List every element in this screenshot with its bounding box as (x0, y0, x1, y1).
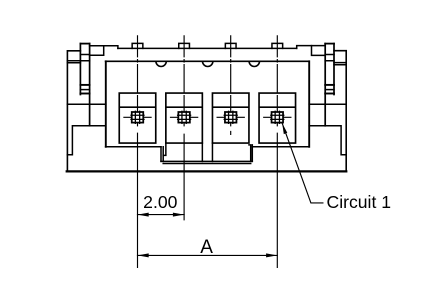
pin 2 tab (179, 43, 190, 48)
pin 4 extension line (276, 133, 278, 267)
top flange (118, 47, 297, 49)
cavity box 1 (119, 93, 156, 143)
seating plane bottom line (67, 170, 347, 172)
connector outer left wall (67, 51, 80, 172)
center rib right wall (211, 143, 213, 161)
pin 1 horizontal centerline (124, 116, 151, 118)
pin 3 horizontal centerline (217, 116, 244, 118)
pin 1 contact square (131, 111, 144, 123)
connector outer right wall (334, 51, 346, 172)
right wing bottom edge (309, 103, 346, 105)
dimension 2.00 line (138, 213, 185, 217)
pin 3 tab (225, 43, 236, 48)
notch arc 3 (249, 61, 259, 66)
flange right step (297, 46, 326, 49)
left side ledge lines (67, 61, 80, 63)
pin 1 tab (132, 43, 143, 48)
left latch (80, 44, 89, 95)
left latch inner edge wire (89, 44, 91, 126)
dimension A line (138, 253, 278, 257)
notch arc 2 (203, 61, 213, 66)
right latch inner edge wire (324, 44, 326, 126)
housing body top (106, 60, 310, 62)
channel left wall (161, 147, 163, 162)
svg-text:Circuit 1: Circuit 1 (327, 192, 392, 212)
pin 4 contact square (271, 111, 284, 123)
pin 2 contact square (178, 111, 191, 123)
housing body right edge (308, 61, 310, 147)
pin 1 extension line (137, 133, 139, 267)
pin 1 vertical centerline (137, 36, 139, 126)
right side ledge lines (334, 63, 346, 65)
channel right wall (249, 145, 252, 162)
pin 2 extension line (183, 134, 185, 220)
housing body left edge (105, 61, 107, 147)
pin 4 tab (272, 43, 283, 48)
pin 2 vertical centerline (183, 36, 185, 126)
svg-text:A: A (200, 237, 213, 258)
pin 4 vertical centerline (276, 36, 278, 126)
left wing bottom edge (67, 103, 105, 105)
channel floor (161, 161, 252, 163)
cavity box 3 (212, 93, 249, 143)
pin 3 vertical centerline (230, 36, 232, 135)
notch arc 1 (156, 61, 166, 66)
right latch (325, 44, 334, 95)
circuit 1 leader line (282, 123, 323, 203)
housing bottom face right (252, 146, 309, 148)
pin 4 horizontal centerline (264, 116, 291, 118)
right inner pocket (309, 126, 346, 155)
housing bottom face left (106, 146, 161, 148)
left inner pocket (67, 126, 105, 155)
pin 3 contact square (224, 111, 237, 123)
left small box (90, 46, 104, 56)
pin 2 horizontal centerline (171, 116, 198, 118)
cavity box 2 (166, 93, 203, 143)
channel step under cavity 2 (163, 143, 166, 155)
center rib left wall (201, 143, 203, 161)
cavity box 4 (259, 93, 296, 143)
right small box (312, 46, 326, 56)
left upper profile wire (90, 46, 118, 49)
svg-text:2.00: 2.00 (143, 192, 177, 212)
